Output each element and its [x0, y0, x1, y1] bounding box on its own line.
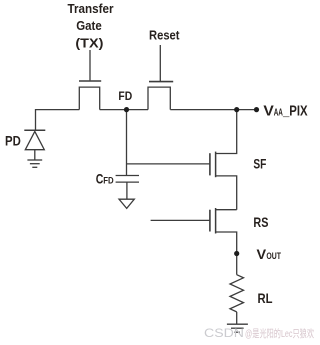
wire VOUT to resistor [236, 254, 238, 275]
wire reset drain to VAA_PIX rail [170, 109, 256, 111]
svg-text:SF: SF [253, 156, 266, 172]
svg-text:V: V [257, 246, 267, 262]
svg-text:(TX): (TX) [75, 37, 103, 51]
diode PD triangle [25, 131, 44, 149]
wire FD node down to capacitor [126, 110, 128, 176]
watermark [204, 327, 314, 340]
transistor U1 SF channel [215, 152, 217, 178]
svg-text:Reset: Reset [149, 29, 180, 43]
transistor Q1 gate bar [79, 80, 101, 82]
transistor U1 SF gate bar [209, 153, 211, 175]
svg-text:Gate: Gate [76, 19, 102, 33]
svg-text:RL: RL [258, 290, 273, 306]
capacitor C_FD top plate [116, 175, 139, 177]
svg-text:_PIX: _PIX [282, 103, 307, 120]
svg-text:PD: PD [5, 132, 21, 148]
svg-text:OUT: OUT [266, 251, 281, 262]
svg-text:AA: AA [274, 108, 283, 119]
wire reset gate lead [159, 45, 161, 81]
wire resistor to ground [236, 312, 238, 324]
transistor Q2 gate bar [149, 81, 173, 83]
wire FD node to reset source [127, 109, 149, 111]
wire SF source down to RS drain [216, 176, 237, 210]
ground symbol bottom [227, 323, 248, 325]
capacitor C_FD bottom plate [116, 181, 139, 183]
wire PD node to TX source [36, 110, 80, 130]
label Transfer Gate (TX) [68, 2, 114, 51]
transistor U2 RS gate bar [209, 210, 211, 232]
node VOUT dot [234, 251, 239, 256]
node VAA rail junction dot [234, 107, 239, 112]
wire PD anode to ground [34, 150, 36, 160]
transistor U2 RS channel [215, 208, 217, 234]
diode PD cathode bar [24, 129, 45, 131]
wire FD to SF gate [127, 163, 210, 165]
wire RS gate lead [151, 219, 210, 221]
svg-text:FD: FD [118, 89, 132, 103]
wire SF drain to VAA rail [216, 110, 237, 154]
transistor Q1 transfer gate channel hump [79, 87, 99, 110]
svg-text:RS: RS [253, 214, 268, 230]
wire TX gate lead [89, 50, 91, 80]
svg-text:Transfer: Transfer [68, 2, 114, 16]
wire capacitor to ground [126, 182, 128, 199]
svg-text:V: V [263, 103, 273, 120]
svg-text:FD: FD [103, 175, 114, 186]
wire RS drain [216, 209, 237, 211]
svg-text:@是光阳的Lec只狼欢: @是光阳的Lec只狼欢 [245, 327, 314, 340]
ground symbol PD [27, 159, 42, 161]
node FD junction dot [124, 107, 129, 112]
svg-text:CSDN: CSDN [204, 328, 244, 340]
wire TX drain to FD node [100, 109, 127, 111]
wire RS source to VOUT [216, 232, 237, 254]
node VAA_PIX terminal dot [254, 107, 259, 112]
transistor Q2 reset channel hump [148, 87, 170, 110]
ground triangle below C_FD [119, 199, 134, 208]
resistor RL zigzag [230, 275, 244, 312]
